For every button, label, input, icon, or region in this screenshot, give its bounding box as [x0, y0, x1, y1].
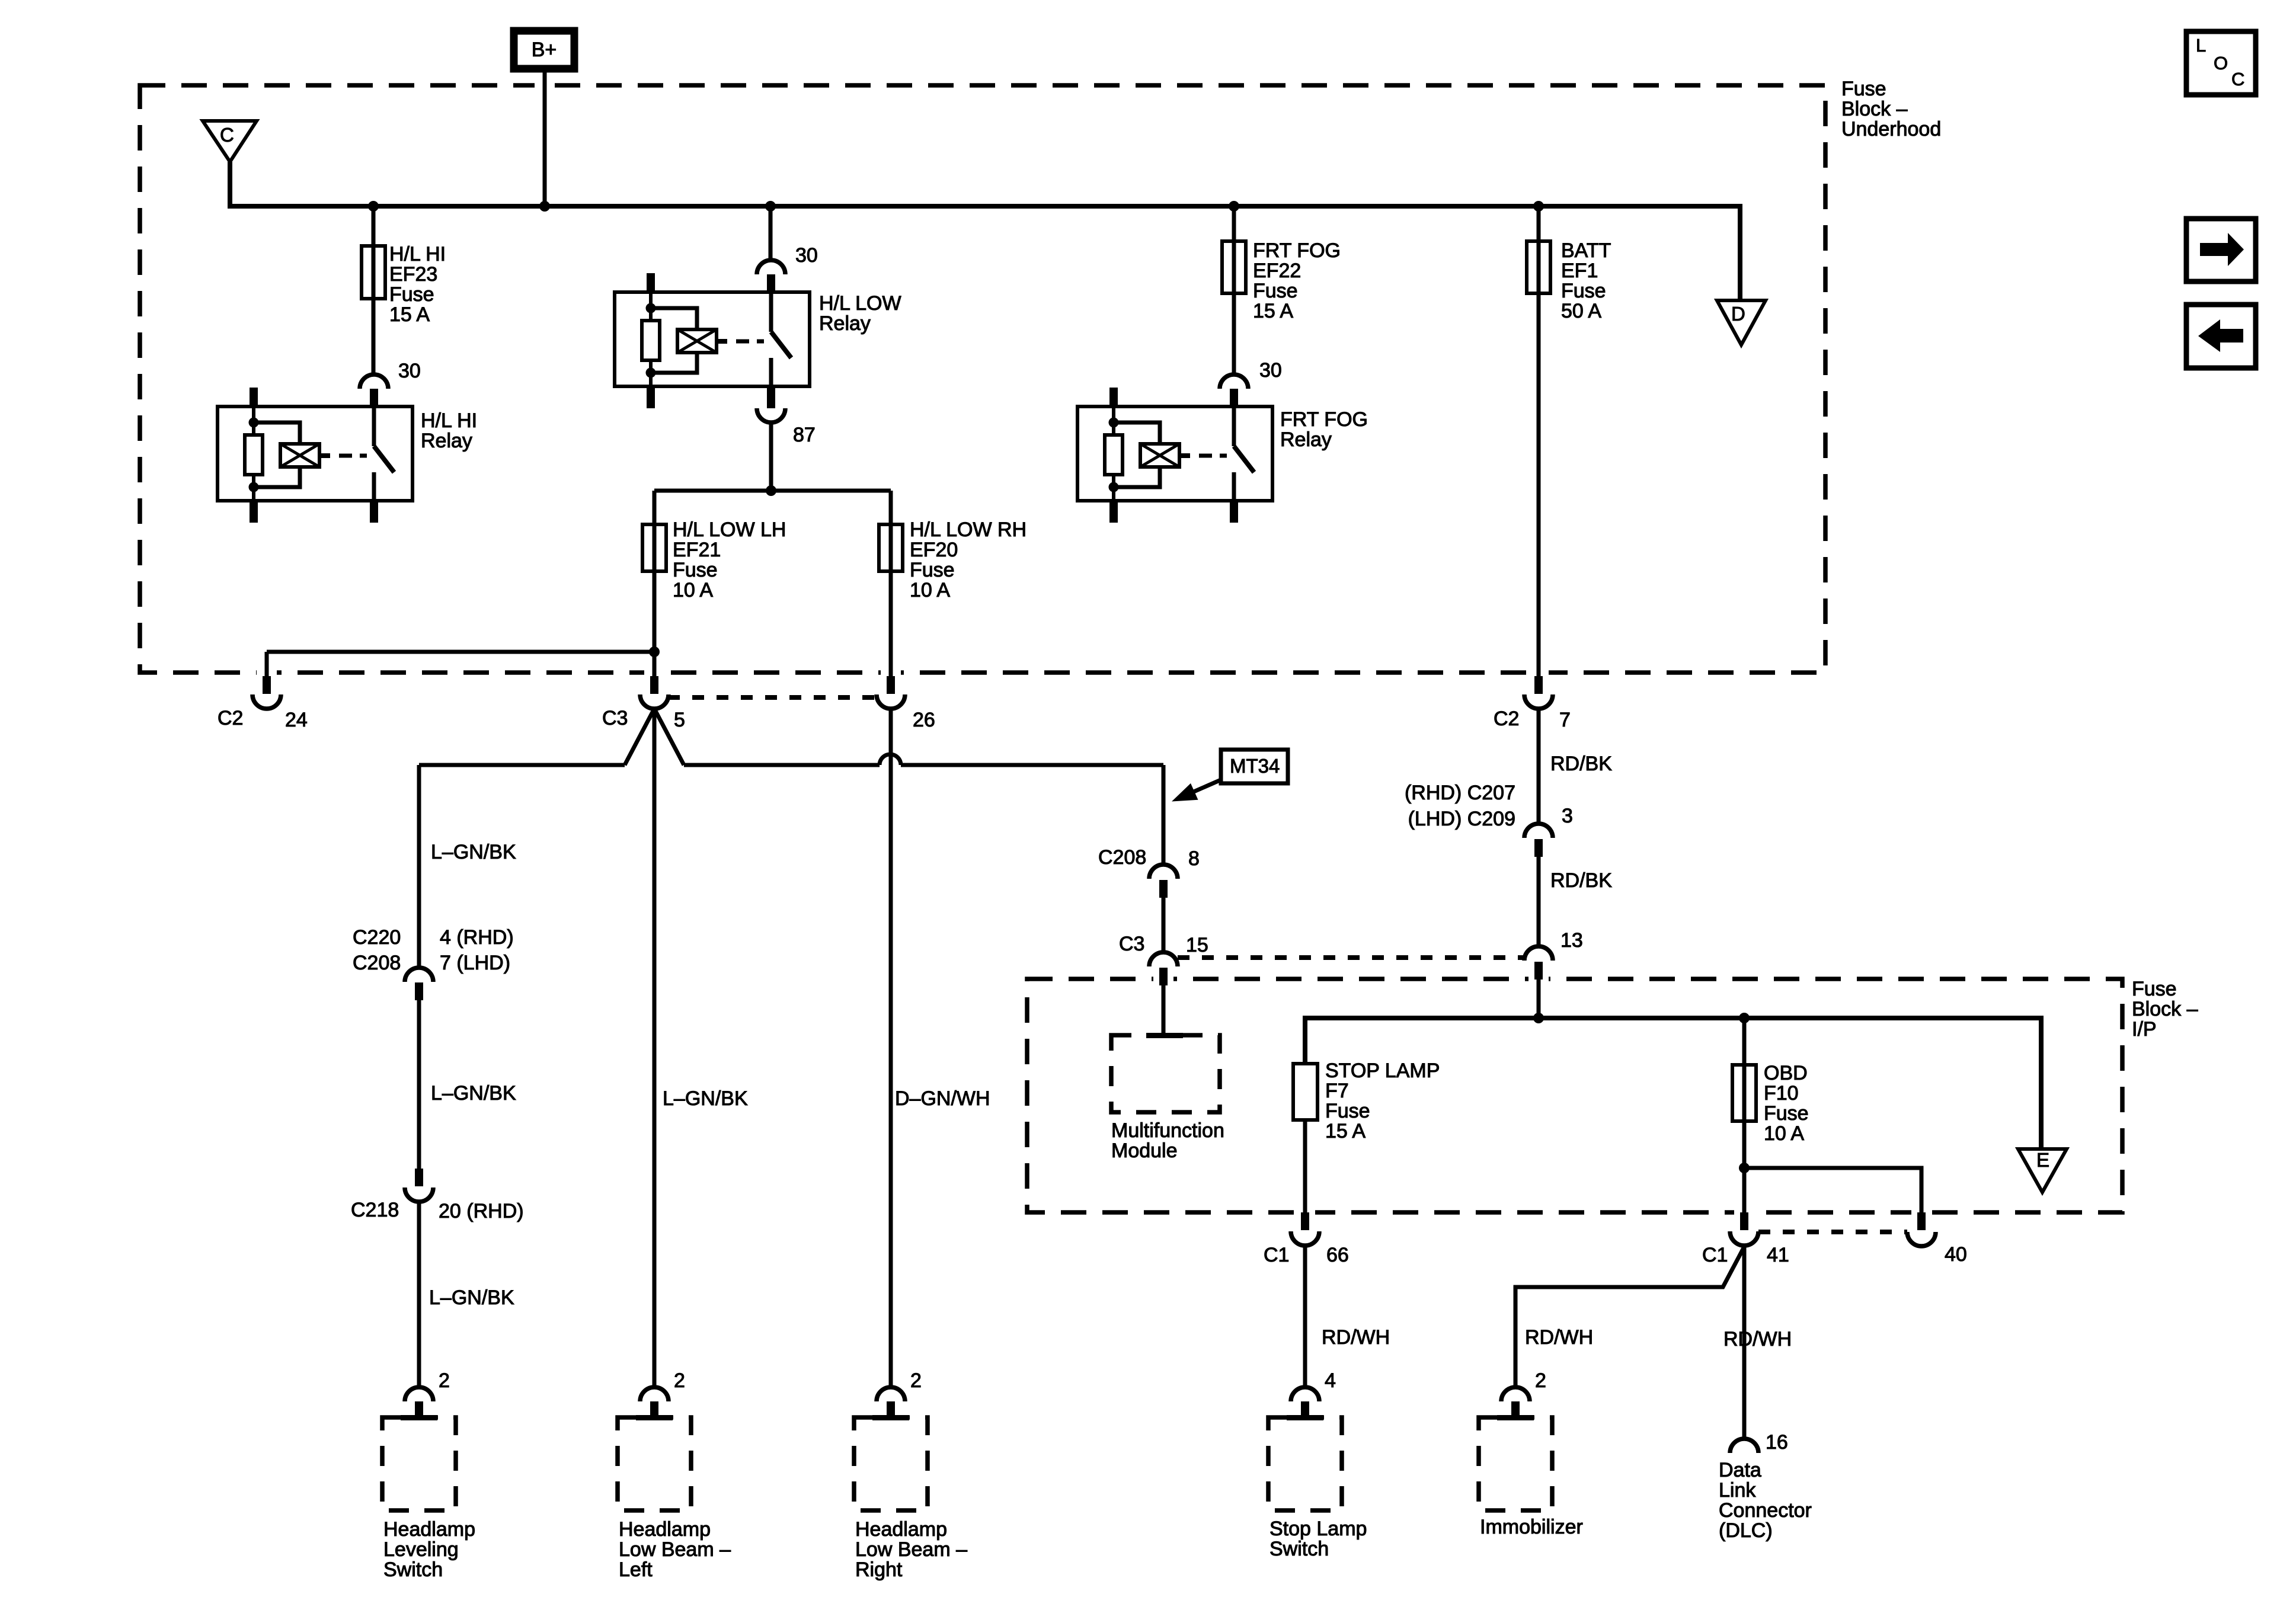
svg-text:30: 30 — [1259, 359, 1282, 382]
MT34 arrow — [1192, 780, 1221, 792]
connector C218 cavity 20 — [415, 1169, 423, 1186]
connector pin 2 of Headlamp Leveling Switch — [405, 1387, 433, 1401]
svg-text:Fuse: Fuse — [389, 283, 434, 306]
svg-text:C: C — [220, 124, 234, 146]
wire relay 87 down — [769, 422, 773, 491]
wire to fuse EF20 and C3-26 — [889, 491, 893, 676]
wire C triangle to bus and main bus to D — [230, 162, 1740, 302]
relay FRT FOG Relay U3 — [1077, 375, 1272, 523]
connector DLC cavity 16 — [1730, 1439, 1758, 1453]
svg-text:15: 15 — [1186, 934, 1208, 956]
wire C3-26 to headlamp low beam right — [889, 709, 893, 1387]
LOC legend box — [2186, 31, 2256, 95]
svg-text:16: 16 — [1766, 1431, 1788, 1454]
svg-text:2: 2 — [439, 1369, 450, 1392]
svg-text:B+: B+ — [532, 39, 557, 61]
svg-text:41: 41 — [1767, 1244, 1789, 1266]
wire MT34 branch down — [1162, 765, 1166, 865]
svg-text:40: 40 — [1945, 1243, 1967, 1266]
svg-text:15 A: 15 A — [389, 303, 430, 326]
wire — [417, 999, 421, 1169]
svg-text:H/L HI: H/L HI — [421, 409, 477, 432]
svg-text:H/L LOW RH: H/L LOW RH — [910, 518, 1027, 541]
wire — [1162, 898, 1166, 952]
fuse EF23 H/L HI 15A — [362, 246, 385, 299]
svg-text:10 A: 10 A — [673, 579, 713, 601]
fuse EF22 FRT FOG 15A — [1222, 241, 1246, 293]
svg-text:Block –: Block – — [2132, 998, 2198, 1020]
svg-text:RD/BK: RD/BK — [1550, 753, 1612, 775]
svg-text:D–GN/WH: D–GN/WH — [895, 1087, 990, 1110]
svg-text:4: 4 — [1325, 1369, 1336, 1392]
svg-text:FRT FOG: FRT FOG — [1253, 239, 1341, 262]
svg-text:H/L HI: H/L HI — [389, 243, 446, 265]
fuse F7 STOP LAMP 15A — [1293, 1064, 1318, 1120]
legend left-arrow box — [2186, 305, 2256, 368]
svg-text:F10: F10 — [1764, 1082, 1799, 1105]
svg-text:EF22: EF22 — [1253, 260, 1301, 282]
svg-text:30: 30 — [398, 360, 421, 382]
svg-text:STOP LAMP: STOP LAMP — [1325, 1060, 1440, 1082]
connector pin 2 of Headlamp Low Beam – Left — [640, 1387, 669, 1401]
svg-text:13: 13 — [1560, 929, 1583, 952]
dotted connector C1 tie 41-40 — [1758, 1230, 1907, 1234]
I/P fuse block bus — [1305, 1018, 2041, 1150]
svg-text:Fuse: Fuse — [1841, 78, 1886, 100]
svg-text:C1: C1 — [1702, 1244, 1728, 1266]
svg-text:FRT FOG: FRT FOG — [1280, 408, 1368, 431]
fuse block underhood dashed border — [140, 85, 1825, 673]
connector triangle C — [203, 121, 257, 162]
svg-text:Low Beam –: Low Beam – — [619, 1538, 731, 1561]
border gaps for wire crossings — [535, 80, 555, 91]
svg-text:4 (RHD): 4 (RHD) — [440, 926, 514, 949]
svg-text:Headlamp: Headlamp — [619, 1518, 711, 1541]
svg-text:BATT: BATT — [1561, 239, 1611, 262]
wire hop — [880, 754, 901, 765]
connector C1 cavity 40 — [1917, 1212, 1926, 1230]
svg-text:87: 87 — [793, 424, 816, 446]
svg-text:H/L LOW: H/L LOW — [819, 292, 901, 315]
connector C3 cavity 5 — [650, 676, 658, 694]
svg-text:Headlamp: Headlamp — [383, 1518, 475, 1541]
connector triangle E — [2018, 1149, 2067, 1192]
svg-text:Module: Module — [1111, 1140, 1178, 1162]
svg-text:OBD: OBD — [1764, 1062, 1808, 1084]
svg-text:Relay: Relay — [819, 312, 871, 335]
svg-text:Immobilizer: Immobilizer — [1480, 1516, 1583, 1538]
svg-text:F7: F7 — [1325, 1080, 1349, 1102]
svg-text:7 (LHD): 7 (LHD) — [440, 952, 510, 974]
connector C2 cavity 24 — [263, 676, 271, 694]
svg-text:2: 2 — [910, 1369, 922, 1392]
svg-text:7: 7 — [1559, 709, 1571, 731]
wire EF21 branch to C2-24 — [267, 650, 654, 654]
svg-text:Connector: Connector — [1719, 1499, 1812, 1522]
junction bus/13 — [1533, 1013, 1544, 1023]
component box Immobilizer — [1479, 1417, 1552, 1510]
pin 87 connector of H/L LOW relay — [757, 408, 785, 422]
connector C208 cavity 8 — [1149, 865, 1178, 879]
svg-text:24: 24 — [285, 709, 308, 731]
svg-text:C208: C208 — [353, 952, 401, 974]
wire bus to H/L LOW relay pin30 — [769, 206, 773, 261]
svg-text:C: C — [2231, 69, 2244, 89]
wire into I/P block — [1537, 980, 1541, 1020]
wire bus to C2-7 — [1537, 206, 1541, 676]
svg-text:L: L — [2196, 35, 2206, 56]
fuse F10 OBD 10A — [1732, 1065, 1756, 1121]
svg-text:C208: C208 — [1098, 846, 1146, 869]
svg-text:Block –: Block – — [1841, 98, 1908, 120]
svg-text:Fuse: Fuse — [910, 559, 955, 581]
wire B+ to bus — [543, 69, 547, 204]
junction EF21/C2-24 branch — [649, 646, 660, 657]
junction bus/HL-LOW relay — [765, 201, 776, 212]
svg-text:3: 3 — [1562, 805, 1573, 827]
junction bus/B+ — [539, 201, 550, 212]
svg-text:C2: C2 — [1494, 708, 1519, 730]
B+ battery feed box — [514, 31, 574, 69]
svg-text:(DLC): (DLC) — [1719, 1519, 1773, 1542]
svg-text:(LHD) C209: (LHD) C209 — [1408, 808, 1515, 830]
wire — [417, 1202, 421, 1387]
dotted connector tie 15-13 — [1178, 955, 1524, 960]
svg-text:C218: C218 — [351, 1199, 399, 1221]
wire down to C2-24 — [265, 652, 269, 676]
connector cavity 13 into I/P fuse block — [1524, 946, 1553, 961]
wire split to EF21/EF20 — [654, 489, 891, 493]
junction bus/OBD — [1739, 1013, 1750, 1023]
svg-text:10 A: 10 A — [910, 579, 950, 601]
dotted connector C3 tie 5-26 — [668, 695, 877, 700]
wire RD/WH to stop lamp switch — [1303, 1246, 1307, 1387]
relay H/L LOW Relay U2 — [615, 260, 810, 408]
relay H/L HI Relay U1 — [218, 375, 412, 523]
svg-text:RD/WH: RD/WH — [1723, 1328, 1792, 1350]
connector C3 cavity 26 — [887, 676, 895, 694]
svg-text:I/P: I/P — [2132, 1018, 2157, 1041]
connector triangle D — [1717, 300, 1766, 345]
svg-text:2: 2 — [1535, 1369, 1546, 1392]
connector C1 cavity 66 — [1301, 1212, 1309, 1230]
svg-text:Fuse: Fuse — [1253, 280, 1298, 302]
connector C220/C208 cavity 4/7 — [405, 968, 433, 982]
svg-text:C3: C3 — [1119, 933, 1144, 955]
connector pin 2 of Headlamp Low Beam – Right — [877, 1387, 905, 1401]
svg-text:Fuse: Fuse — [1325, 1100, 1370, 1122]
junction 87 split — [766, 485, 776, 496]
fuse block I/P dashed border — [1027, 979, 2122, 1212]
svg-text:MT34: MT34 — [1230, 755, 1280, 777]
svg-text:Leveling: Leveling — [383, 1538, 459, 1561]
svg-text:50 A: 50 A — [1561, 300, 1601, 322]
junction bus/EF1 — [1533, 201, 1544, 212]
svg-text:Fuse: Fuse — [2132, 978, 2177, 1000]
svg-text:RD/WH: RD/WH — [1322, 1326, 1390, 1349]
svg-text:L–GN/BK: L–GN/BK — [431, 1082, 516, 1105]
svg-text:(RHD) C207: (RHD) C207 — [1405, 782, 1515, 804]
connector pin 4 of Stop Lamp Switch — [1291, 1387, 1319, 1401]
svg-text:Low Beam –: Low Beam – — [855, 1538, 967, 1561]
wire to fuse EF21 and C3-5 — [653, 491, 657, 676]
wires from C3-5: left diagonal / center / right diagonal — [625, 709, 654, 765]
connector pin 2 of Immobilizer — [1501, 1387, 1530, 1401]
svg-text:C2: C2 — [218, 707, 243, 729]
wire to multifunction module — [1162, 985, 1166, 1038]
legend right-arrow box — [2186, 219, 2256, 281]
wire C3-5 right branch with hop over 26 wire — [684, 763, 880, 767]
svg-text:15 A: 15 A — [1325, 1120, 1366, 1142]
svg-text:H/L LOW LH: H/L LOW LH — [673, 518, 786, 541]
wire F7 to C1-66 — [1303, 1120, 1307, 1212]
svg-text:EF20: EF20 — [910, 539, 958, 561]
svg-text:RD/BK: RD/BK — [1550, 869, 1612, 892]
svg-text:Relay: Relay — [1280, 428, 1332, 451]
svg-text:26: 26 — [913, 709, 935, 731]
svg-text:L–GN/BK: L–GN/BK — [663, 1087, 748, 1110]
svg-text:Fuse: Fuse — [1561, 280, 1606, 302]
svg-text:Headlamp: Headlamp — [855, 1518, 947, 1541]
svg-text:66: 66 — [1326, 1244, 1349, 1266]
connector C1 cavity 41 — [1740, 1212, 1748, 1230]
fuse EF20 H/L LOW RH 10A — [879, 524, 903, 571]
svg-text:20 (RHD): 20 (RHD) — [439, 1200, 524, 1222]
svg-text:Switch: Switch — [1269, 1538, 1329, 1560]
svg-text:Fuse: Fuse — [673, 559, 718, 581]
svg-text:Relay: Relay — [421, 430, 472, 452]
svg-text:8: 8 — [1188, 847, 1200, 870]
svg-text:Underhood: Underhood — [1841, 118, 1941, 140]
svg-text:EF23: EF23 — [389, 263, 437, 286]
svg-text:C1: C1 — [1264, 1244, 1289, 1266]
svg-text:D: D — [1731, 303, 1745, 325]
svg-text:Fuse: Fuse — [1764, 1102, 1809, 1125]
wire OBD fuse column — [1742, 1018, 1747, 1212]
wire bus to H/L HI relay pin30 — [372, 206, 376, 375]
multifunction module dashed box — [1111, 1035, 1220, 1112]
svg-text:2: 2 — [674, 1369, 685, 1392]
wire bus to FRT FOG relay pin30 — [1232, 206, 1236, 375]
svg-text:5: 5 — [674, 709, 685, 731]
svg-text:Switch: Switch — [383, 1558, 443, 1581]
svg-text:15 A: 15 A — [1253, 300, 1293, 322]
junction bus/EF22 — [1229, 201, 1239, 212]
connector C207(RHD)/C209(LHD) cavity 3 — [1524, 824, 1553, 838]
component box Headlamp Low Beam – Left — [618, 1417, 691, 1510]
svg-text:C3: C3 — [602, 707, 628, 729]
component box Headlamp Low Beam – Right — [854, 1417, 928, 1510]
MT34 harness callout box — [1221, 750, 1288, 783]
wire C1-41 to immobilizer — [1515, 1247, 1744, 1387]
svg-text:Data: Data — [1719, 1459, 1761, 1481]
svg-text:Link: Link — [1719, 1479, 1756, 1502]
svg-text:C220: C220 — [353, 926, 401, 949]
wire to headlamp leveling switch — [419, 763, 625, 767]
connector C3 cavity 15 — [1149, 952, 1178, 966]
svg-text:10 A: 10 A — [1764, 1122, 1804, 1145]
component box Headlamp Leveling Switch — [382, 1417, 456, 1510]
svg-text:L–GN/BK: L–GN/BK — [431, 841, 516, 863]
wire RD/BK — [1537, 857, 1541, 946]
junction bus/EF23 — [368, 201, 379, 212]
svg-text:Stop Lamp: Stop Lamp — [1269, 1518, 1367, 1540]
connector C2 cavity 7 — [1534, 676, 1543, 694]
svg-text:EF21: EF21 — [673, 539, 721, 561]
svg-text:RD/WH: RD/WH — [1525, 1326, 1593, 1349]
wire RD/WH to DLC — [1742, 1246, 1747, 1439]
svg-text:Right: Right — [855, 1558, 903, 1581]
svg-text:E: E — [2036, 1149, 2049, 1171]
junction OBD/40 branch — [1739, 1163, 1750, 1173]
svg-text:O: O — [2214, 53, 2228, 73]
svg-text:30: 30 — [795, 244, 818, 267]
fuse EF21 H/L LOW LH 10A — [642, 524, 666, 571]
wire branch to cavity 40 — [1744, 1168, 1921, 1212]
svg-text:Multifunction: Multifunction — [1111, 1119, 1224, 1142]
svg-text:EF1: EF1 — [1561, 260, 1598, 282]
wire RD/BK — [1537, 709, 1541, 824]
fuse EF1 BATT 50A — [1527, 241, 1550, 293]
svg-text:L–GN/BK: L–GN/BK — [429, 1286, 514, 1309]
svg-text:Left: Left — [619, 1558, 653, 1581]
component box Stop Lamp Switch — [1268, 1417, 1342, 1510]
